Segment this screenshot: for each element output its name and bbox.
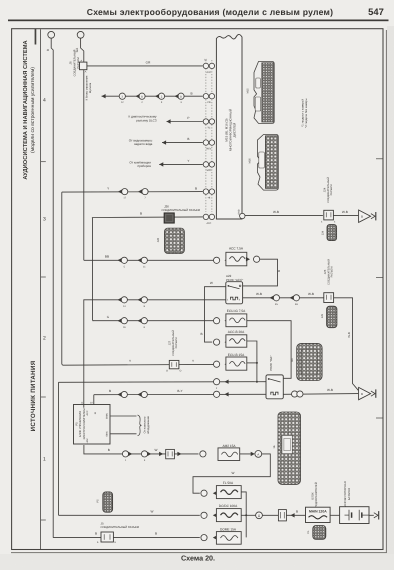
wire FL output down xyxy=(241,492,246,538)
wire row R6 xyxy=(62,191,203,194)
fuse FL 50A fusible link xyxy=(201,481,241,498)
relay IG1 box xyxy=(266,375,283,399)
wire relay A22 output to J25 xyxy=(243,297,324,299)
inline connector box before MAIN xyxy=(278,510,294,521)
wire row relay IG1 coil xyxy=(59,381,267,384)
connector pair row ACC xyxy=(121,257,127,263)
connector grid icon P9 large xyxy=(291,343,322,380)
connector pair row AM2 xyxy=(122,451,128,457)
wire bus A x53 xyxy=(51,38,53,537)
wire R1 J6 to display pin xyxy=(87,65,203,67)
junction connector J25 box xyxy=(324,293,334,303)
wire battery to ground xyxy=(369,514,374,516)
page edge line bottom xyxy=(11,552,387,554)
connector pair row ECU-IG xyxy=(121,318,127,324)
brace to equipment xyxy=(138,415,142,436)
fuse ACC-B 20A xyxy=(200,330,246,347)
connector block M16 illustration xyxy=(248,135,278,191)
ruler top bar xyxy=(35,29,37,45)
wire vertical J26 row to ECU-IG row x92.5 xyxy=(92,218,93,322)
ruler tick y520 xyxy=(41,519,46,521)
ruler tick y397 xyxy=(41,396,46,398)
wire ACC fuse to relay top xyxy=(243,259,278,286)
wire vertical relay IG1 feed x58.5 xyxy=(58,382,60,515)
wire row ECU-IG feed xyxy=(93,320,214,322)
display pin pair row6 xyxy=(203,189,214,199)
wire J25 down to shield triangle 2 xyxy=(334,298,359,391)
wire J24 to shield triangle xyxy=(333,215,358,217)
junction connector J6 box xyxy=(80,62,87,70)
wire ECU-B output junction xyxy=(247,362,257,364)
junction connector J27 box xyxy=(166,360,182,372)
node arrow to DLC3 xyxy=(129,115,203,124)
fuse DC/DC 100A xyxy=(201,504,241,522)
wire AM2 loop to FV fuse xyxy=(193,454,270,493)
node arrow from combination meter xyxy=(129,159,202,168)
node circle A after AM2 xyxy=(251,452,255,456)
connector grid icon below MAIN xyxy=(307,526,326,540)
wire row ACC feed xyxy=(84,259,214,261)
node circle D xyxy=(256,512,263,519)
inline connector box on AM2 row xyxy=(159,449,181,458)
fuse AM2 15A xyxy=(200,444,240,461)
wire row DOME from bus A xyxy=(53,537,200,539)
wire ACC-B output down xyxy=(247,341,257,382)
connector grid icon below J24 xyxy=(321,225,336,241)
right frame tick y418 xyxy=(376,417,383,419)
terminal circle A top left xyxy=(48,31,55,38)
wire to MAIN box xyxy=(286,514,305,516)
display pin pair row1 xyxy=(203,59,214,74)
wire relay IG1 output to shield triangle 2 xyxy=(283,393,358,396)
display pin pair row5 xyxy=(203,162,214,173)
shield ground triangle 2 xyxy=(359,387,376,399)
wire ECU-IG to relay IG1 xyxy=(247,321,291,379)
shield ground triangle top xyxy=(359,210,376,222)
fusible link MAIN 120A box xyxy=(306,507,331,522)
fuse ECU-IG 7.5A xyxy=(214,309,247,327)
wire row relay ACC coil feed xyxy=(84,299,226,301)
junction connector J26 box xyxy=(164,213,174,223)
battery box xyxy=(340,507,369,524)
power steering control unit P5 box xyxy=(74,401,111,444)
fuse ACC 7.5A xyxy=(214,246,260,265)
right frame tick y277 xyxy=(376,277,383,279)
wire row J26 xyxy=(92,216,203,219)
dashed shield lines along display pins xyxy=(205,60,207,212)
relay A22 ACC box xyxy=(226,282,243,304)
junction dot DC/DC xyxy=(245,514,247,516)
connector grid icon below J25 xyxy=(321,306,337,328)
display pin pair row3 xyxy=(203,119,214,130)
wire row ECU-B feed xyxy=(63,363,214,366)
junction dot on IG1 coil row xyxy=(256,381,258,383)
display ground pin xyxy=(238,209,246,219)
wire node D to fuse block connector xyxy=(262,514,278,516)
title rule xyxy=(8,20,389,22)
ground symbol battery xyxy=(374,511,379,519)
wires P5 right pins to brace xyxy=(111,415,137,417)
wire display ground to J24 xyxy=(245,215,323,217)
wire relay coil W xyxy=(205,287,226,342)
wire DC/DC to node D xyxy=(241,514,255,516)
wire vertical from R6 corner to ECU-B row xyxy=(61,192,64,365)
ruler tick y162 xyxy=(41,161,46,163)
wire MAIN to battery xyxy=(330,514,340,516)
ruler tick y277 xyxy=(41,276,46,278)
junction dot ECU-B xyxy=(256,362,258,364)
display pin pair row2 xyxy=(203,94,214,105)
fuse ECU-B 15A xyxy=(214,353,247,370)
display pin pair row4 xyxy=(203,140,214,150)
wire bus B lower segment to P5 pin11 xyxy=(83,299,85,407)
connector pair row R2 xyxy=(119,93,125,99)
multi-information display unit box xyxy=(216,34,242,219)
connector grid icon J26 xyxy=(156,228,185,253)
node arrow from rear view camera xyxy=(129,137,203,146)
wire row AM2 from P5 xyxy=(84,445,199,454)
page edge line right xyxy=(385,30,387,553)
node arrow to Multivision control xyxy=(86,75,203,100)
wire row DC/DC long feed xyxy=(59,514,200,516)
wire row relay IG1 contact from P5 xyxy=(94,394,266,404)
junction connector J5 box xyxy=(97,532,117,544)
tall connector grid icon relay block xyxy=(273,412,301,484)
wire bus B x83.8 xyxy=(81,38,84,260)
section ruler xyxy=(40,29,42,549)
right frame tick y159 xyxy=(376,158,383,160)
terminal circle B top xyxy=(77,31,84,38)
junction connector J24 box xyxy=(321,210,336,223)
connector grid icon P5 pinout xyxy=(96,492,112,512)
connector pair row relay feed xyxy=(121,297,127,303)
fuse DOME 15A xyxy=(201,527,241,544)
connector block M15 illustration xyxy=(247,62,275,124)
display pin pair row7 xyxy=(203,214,214,225)
connector pair row R6 xyxy=(122,189,128,195)
